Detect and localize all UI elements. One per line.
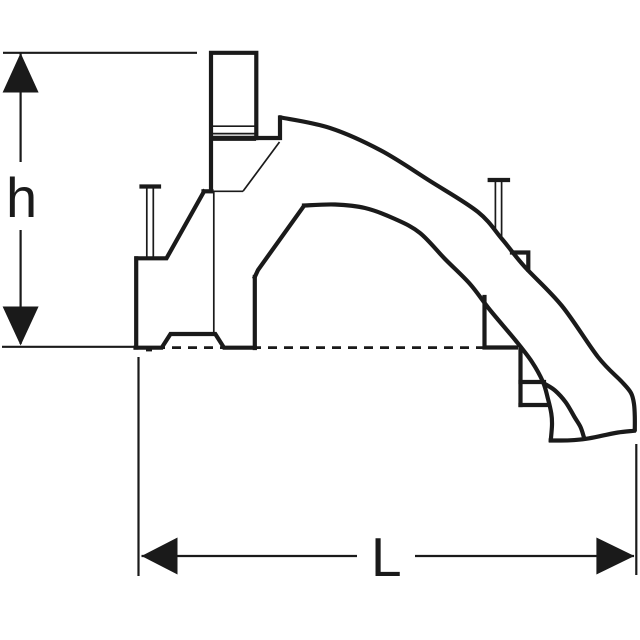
pipe inner curve [304, 204, 552, 440]
right nail cap [490, 178, 508, 182]
right bracket clip left edge below pipe [518, 348, 522, 405]
dimension line L (horizontal, broken for label) [142, 555, 358, 557]
dashed base line under component [140, 346, 484, 349]
foot right edge vertical [253, 277, 257, 348]
right bracket tab on outer curve [512, 253, 528, 270]
left shoulder step at stub base [204, 189, 212, 193]
right bracket clip bar lower [521, 403, 549, 407]
extension line bottom-right (vertical) [635, 444, 637, 575]
leg diagonal up to inner curve start [255, 207, 304, 278]
baseline solid (floor line at left) [2, 346, 136, 348]
svg-text:L: L [371, 526, 402, 588]
arrowhead L left [142, 538, 178, 575]
left bracket left edge [134, 258, 138, 347]
socket stub outline (top vertical inlet) [211, 53, 256, 191]
left nail cap [142, 184, 160, 188]
left bracket outer diagonal [137, 192, 205, 259]
pipe end cap [551, 431, 634, 441]
extension line top (horizontal at component top level) [3, 52, 197, 54]
arrowhead L right [596, 538, 634, 575]
socket depth thin lines [212, 125, 255, 127]
socket bottom thick line across [212, 137, 254, 141]
right nail shaft [494, 182, 496, 233]
extension line bottom-left (vertical) [137, 357, 139, 576]
svg-text:h: h [6, 166, 37, 229]
thin horizontal at shoulder [213, 190, 243, 192]
foot heel tick [146, 348, 152, 351]
left nail shaft [146, 188, 148, 258]
arrowhead h top [3, 53, 39, 93]
thin diagonal up to step [243, 142, 280, 191]
right bracket visible quad left of pipe [485, 297, 517, 348]
pipe end face curve [545, 384, 584, 437]
thin vertical pipe edge hidden line [213, 192, 215, 334]
arrowhead h bottom [3, 307, 39, 346]
step from stub to curve start (thick) [255, 118, 281, 139]
left foot bottom with plateau notch [136, 334, 255, 348]
dimension line h (vertical, broken for label) [20, 53, 22, 162]
pipe outer curve [281, 118, 635, 430]
right bracket clip bar upper [521, 380, 545, 384]
